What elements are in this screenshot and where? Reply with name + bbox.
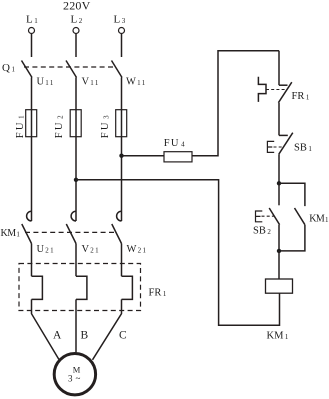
fuse FU3 xyxy=(116,110,127,137)
wire phase A contactor to relay xyxy=(31,244,33,277)
label FU4 xyxy=(164,138,186,149)
wire motor lead B xyxy=(75,299,77,352)
label FR1 contact xyxy=(292,91,310,102)
node branch bottom xyxy=(277,249,281,253)
label KM1 coil xyxy=(267,331,289,342)
terminal L3 xyxy=(119,28,125,34)
label U11 xyxy=(37,77,55,88)
svg-text:L1: L1 xyxy=(26,14,38,26)
svg-text:B: B xyxy=(81,329,89,341)
svg-text:C: C xyxy=(119,329,127,341)
svg-text:FU1: FU1 xyxy=(15,113,26,138)
svg-text:FR1: FR1 xyxy=(292,91,310,102)
label U21 xyxy=(37,244,56,255)
label Q1 xyxy=(2,62,15,74)
label 220V supply xyxy=(63,0,91,13)
wire phase A switch to contactor xyxy=(31,78,33,222)
switch Q1 pole 2 xyxy=(66,61,77,78)
label L1 xyxy=(26,14,38,26)
wire L1 to switch xyxy=(31,34,33,58)
switch Q1 pole 1 xyxy=(22,61,33,78)
wire motor lead A xyxy=(32,299,59,359)
svg-text:FU2: FU2 xyxy=(54,113,65,138)
label V11 xyxy=(82,77,100,88)
label SB1 xyxy=(294,143,312,154)
svg-text:L3: L3 xyxy=(114,14,126,26)
svg-text:A: A xyxy=(53,329,62,341)
svg-text:SB2: SB2 xyxy=(253,226,271,237)
svg-text:Q1: Q1 xyxy=(2,62,15,74)
svg-text:KM1: KM1 xyxy=(309,214,329,225)
wire node to coil xyxy=(278,251,280,279)
label L3 xyxy=(114,14,126,26)
label KM1 aux xyxy=(309,214,329,225)
heater FR1 element 2 xyxy=(76,276,87,299)
svg-text:220V: 220V xyxy=(63,0,91,13)
label node C xyxy=(119,329,127,341)
svg-text:W21: W21 xyxy=(127,244,148,255)
svg-text:U11: U11 xyxy=(37,77,55,88)
heater FR1 element 3 xyxy=(122,276,133,299)
thermal relay FR1 box xyxy=(19,264,141,311)
svg-text:SB1: SB1 xyxy=(294,143,312,154)
label node B xyxy=(81,329,89,341)
label FU2 xyxy=(54,113,65,138)
fuse FU2 xyxy=(70,110,81,137)
label W11 xyxy=(126,77,147,88)
node junction phase B to control return xyxy=(74,178,78,182)
contactor KM1 main contact 2 xyxy=(66,211,76,243)
heater FR1 element 1 xyxy=(32,276,43,299)
contact KM1 aux (NO) xyxy=(295,208,305,225)
svg-text:KM1: KM1 xyxy=(1,228,21,239)
relay contact FR1 (NC) xyxy=(258,51,291,103)
svg-text:FU4: FU4 xyxy=(164,138,186,149)
svg-text:W11: W11 xyxy=(126,77,147,88)
switch Q1 pole 3 xyxy=(112,61,123,78)
wire L3 to switch xyxy=(121,34,123,58)
wire SB2 to merge xyxy=(278,225,280,251)
wire node to SB2 xyxy=(278,183,280,205)
label FU3 xyxy=(100,113,111,138)
switch Q1 linkage xyxy=(24,66,113,68)
label SB2 xyxy=(253,226,271,237)
svg-text:KM1: KM1 xyxy=(267,331,289,342)
label FR1 main xyxy=(149,287,167,298)
node branch top xyxy=(277,181,281,185)
wire branch to KM1 aux xyxy=(279,183,305,206)
label node A xyxy=(53,329,62,341)
wire phase B switch to contactor xyxy=(75,78,77,222)
contactor KM1 main contact 1 xyxy=(22,211,32,243)
wire SB1 to node xyxy=(278,154,280,183)
contactor KM1 linkage xyxy=(25,231,116,233)
label L2 xyxy=(71,14,83,26)
svg-text:FR1: FR1 xyxy=(149,287,167,298)
svg-text:L2: L2 xyxy=(71,14,83,26)
label FU1 xyxy=(15,113,26,138)
wire phase B contactor to relay xyxy=(75,244,77,277)
svg-text:U21: U21 xyxy=(37,244,56,255)
svg-text:V11: V11 xyxy=(82,77,100,88)
terminal L1 xyxy=(29,28,35,34)
terminal L2 xyxy=(73,28,79,34)
pushbutton SB2 (NO start) xyxy=(256,208,280,225)
wire phase C tap to FU4 xyxy=(122,155,165,157)
fuse FU1 xyxy=(26,110,37,137)
label KM1 main xyxy=(1,228,21,239)
fuse FU4 xyxy=(164,152,192,162)
wire FR1 to SB1 xyxy=(278,103,280,136)
node junction phase C to control xyxy=(119,154,123,158)
wire L2 to switch xyxy=(75,34,77,58)
label V21 xyxy=(82,244,101,255)
wire KM1 aux to merge xyxy=(279,225,305,251)
motor M xyxy=(54,354,95,395)
wire motor lead C xyxy=(93,299,122,359)
wire phase C contactor to relay xyxy=(121,244,123,277)
wire control return xyxy=(76,180,280,325)
wire phase C switch to contactor xyxy=(121,78,123,222)
label W21 xyxy=(127,244,148,255)
svg-text:V21: V21 xyxy=(82,244,101,255)
wire FU4 to control feed riser xyxy=(192,51,279,156)
svg-text:3~: 3~ xyxy=(68,373,81,383)
coil KM1 xyxy=(266,279,293,293)
pushbutton SB1 (NC stop) xyxy=(267,133,292,155)
contactor KM1 main contact 3 xyxy=(112,211,122,243)
svg-text:FU3: FU3 xyxy=(100,113,111,138)
